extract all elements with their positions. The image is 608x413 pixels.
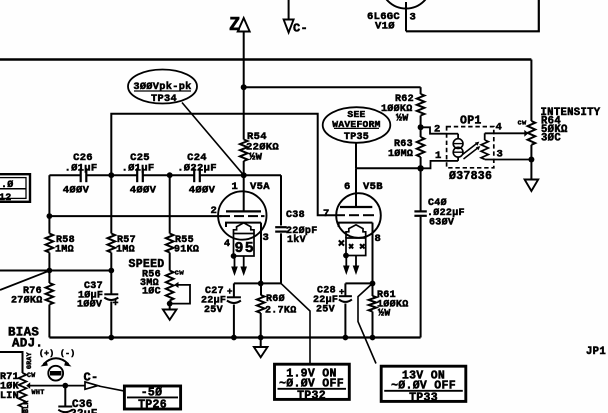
label R64 30C xyxy=(541,132,561,144)
wire R62 top xyxy=(420,87,422,94)
resistor R58 xyxy=(46,234,54,253)
wire R57 top xyxy=(110,175,112,233)
label R62 xyxy=(381,94,414,125)
label TP34 xyxy=(151,93,177,105)
light arrows OP1 xyxy=(463,142,481,159)
svg-text:CW: CW xyxy=(27,372,35,379)
label R56 cw xyxy=(175,270,185,278)
svg-text:4: 4 xyxy=(496,122,503,134)
label R63 xyxy=(388,139,413,160)
label V10 xyxy=(375,21,395,33)
svg-text:25V: 25V xyxy=(316,305,335,316)
wire C38 bottom xyxy=(261,233,281,283)
resistor R63 xyxy=(417,137,425,157)
label C37 plus xyxy=(113,299,119,310)
svg-text:.Ø1µF: .Ø1µF xyxy=(64,162,97,174)
adjust arc xyxy=(41,358,72,366)
label pin 3 V5A xyxy=(263,232,270,244)
svg-text:½W: ½W xyxy=(378,308,391,320)
svg-text:.Ø1µF: .Ø1µF xyxy=(121,162,154,174)
tube V5B cathode xyxy=(339,223,373,227)
node y270 dots xyxy=(47,268,115,274)
photoresistor OP1 xyxy=(481,133,488,159)
label C38 xyxy=(286,210,318,246)
svg-text:½W: ½W xyxy=(249,152,263,164)
label TP26 xyxy=(138,399,167,412)
svg-text:25V: 25V xyxy=(204,305,223,316)
screwdriver adjust symbol xyxy=(48,366,63,381)
node Z bus / wire y87 xyxy=(241,84,421,90)
wire diagonal lower-left xyxy=(0,271,49,290)
label pin 1 OP1 xyxy=(435,150,442,162)
ground below R56 xyxy=(163,310,177,320)
resistor R62 xyxy=(417,94,425,116)
capacitor C36 xyxy=(58,386,72,413)
wire C40 to bus xyxy=(420,217,422,338)
svg-text:2: 2 xyxy=(211,205,218,217)
divider TP33 xyxy=(384,390,463,392)
label JP1 xyxy=(586,346,606,358)
wire R55-R56 xyxy=(169,253,171,271)
svg-text:4: 4 xyxy=(224,239,230,250)
wire C- to TP26 xyxy=(99,386,124,391)
arrow below R64 xyxy=(525,180,539,192)
wire V5B cathode pin8 xyxy=(372,223,374,296)
svg-text:4ØØV: 4ØØV xyxy=(63,184,90,196)
svg-text:3: 3 xyxy=(497,149,504,161)
node plate row dot xyxy=(241,172,247,178)
label R60 xyxy=(265,293,297,317)
tube V10 envelope arc xyxy=(381,0,432,9)
svg-text:.Ø22µF: .Ø22µF xyxy=(177,162,217,174)
wire R62-R63 xyxy=(418,116,424,138)
pin x-marks V5B xyxy=(339,240,365,248)
svg-text:5: 5 xyxy=(245,240,254,257)
wire V5A plate lead xyxy=(243,175,245,211)
label R71 xyxy=(0,372,19,402)
label SEE xyxy=(347,109,365,120)
tube V5A heater xyxy=(234,223,255,256)
svg-text:1ØMΩ: 1ØMΩ xyxy=(388,148,413,160)
tube V5A envelope xyxy=(218,191,266,239)
label TP33 line2 xyxy=(391,380,456,393)
wire V10 cathode lead xyxy=(405,2,407,31)
label R54 xyxy=(246,131,279,164)
label pin 4 V5A xyxy=(224,239,230,250)
label TP32 xyxy=(297,389,326,402)
testpoint TP33 box xyxy=(381,366,466,401)
svg-text:12: 12 xyxy=(0,193,12,204)
svg-text:TP34: TP34 xyxy=(151,93,177,105)
resistor R55 xyxy=(166,234,174,253)
wire R57-C37 xyxy=(110,253,112,295)
svg-text:(-): (-) xyxy=(60,350,75,359)
label R61 xyxy=(377,290,409,320)
label TP35 xyxy=(344,132,369,143)
lamp OP1 xyxy=(447,134,463,161)
svg-text:cw: cw xyxy=(175,270,185,278)
svg-text:1MΩ: 1MΩ xyxy=(55,245,74,256)
node heater dot V5A xyxy=(231,253,237,259)
label R64 value xyxy=(541,124,568,136)
svg-text:R6Ø: R6Ø xyxy=(266,293,285,305)
svg-text:4ØØV: 4ØØV xyxy=(130,184,157,196)
wire C27 to bus xyxy=(231,305,237,341)
wire R71 bottom xyxy=(22,407,24,413)
wire R63-C40 xyxy=(420,157,422,211)
wire R58-R76 xyxy=(48,253,50,284)
label pin 9 V5A xyxy=(235,240,244,257)
label plus minus xyxy=(39,350,75,359)
label V5A xyxy=(250,181,270,193)
wire R58 top xyxy=(48,175,50,233)
svg-text:C38: C38 xyxy=(286,210,305,221)
capacitor C38 xyxy=(275,227,287,231)
svg-text:63ØV: 63ØV xyxy=(429,217,454,229)
wire V5A cathode pin3 xyxy=(260,223,262,295)
svg-text:3ØC: 3ØC xyxy=(541,132,561,144)
wire R76 to bus xyxy=(48,305,50,338)
node C28 dot xyxy=(370,281,376,287)
wire TP32 pointer xyxy=(281,283,310,363)
wire top horizontal bus xyxy=(0,58,531,60)
svg-text:cw: cw xyxy=(518,120,528,128)
svg-text:TP35: TP35 xyxy=(344,132,369,143)
label OP1 part number xyxy=(449,170,492,183)
label SPEED xyxy=(129,258,165,271)
label R71 cw xyxy=(27,372,35,379)
testpoint TP34 ellipse xyxy=(128,70,197,104)
resistor R57 xyxy=(108,234,116,253)
label C37 xyxy=(77,281,103,311)
label C- top xyxy=(293,22,308,36)
tube V5B heater xyxy=(346,225,366,256)
svg-text:1ØØV: 1ØØV xyxy=(77,299,102,311)
label TP33 line1 xyxy=(402,369,445,382)
tube V5A plate xyxy=(226,210,261,212)
arrow C- top xyxy=(284,0,294,33)
wire TP33 pointer xyxy=(358,283,376,363)
wire OP1 pin4 xyxy=(485,130,529,137)
potentiometer R56 xyxy=(166,271,174,301)
tube V5A cathode xyxy=(226,223,261,227)
label V5B xyxy=(363,181,383,193)
svg-text:+: + xyxy=(227,287,233,297)
capacitor C25 xyxy=(137,168,143,182)
svg-text:TP32: TP32 xyxy=(297,389,326,402)
wire heater arrows V5A xyxy=(231,256,247,276)
svg-text:V5B: V5B xyxy=(363,181,383,193)
label R58 xyxy=(55,235,75,256)
label R57 xyxy=(116,235,136,256)
label C- bottom xyxy=(84,371,99,385)
wire R55 top xyxy=(169,175,171,233)
wire TP35 to plate node xyxy=(355,143,357,169)
wire C27 link xyxy=(234,283,261,297)
capacitor C26 xyxy=(81,168,87,182)
svg-text:OP1: OP1 xyxy=(460,114,482,127)
node R63 bottom dot xyxy=(417,165,423,171)
testpoint TP32 box xyxy=(275,364,350,399)
label BLK xyxy=(23,400,30,413)
optocoupler OP1 box xyxy=(447,127,494,168)
wire OP1 pin2 xyxy=(421,127,447,133)
svg-text:2.7KΩ: 2.7KΩ xyxy=(265,306,297,317)
wire C37 to bus xyxy=(108,302,114,341)
wire right drop to R64 xyxy=(530,60,532,122)
wire OP1 pin3 xyxy=(485,157,535,163)
label 6L6GC xyxy=(367,11,400,23)
ground below bus xyxy=(254,338,268,358)
svg-text:Ø37836: Ø37836 xyxy=(449,170,492,183)
label pin 3 OP1 xyxy=(497,149,504,161)
wire R71 top xyxy=(0,352,23,373)
label C28 plus xyxy=(339,288,345,298)
wire heater arrows V5B xyxy=(343,256,359,276)
divider TP26 xyxy=(127,396,178,398)
tube V5A grid dashes xyxy=(220,215,265,217)
node cap row dots xyxy=(108,172,172,178)
svg-text:2: 2 xyxy=(434,124,441,136)
svg-text:BLK: BLK xyxy=(23,400,30,413)
label WHT xyxy=(32,389,45,397)
node Z / signal Z arrow xyxy=(238,18,250,140)
svg-text:V5A: V5A xyxy=(250,181,270,193)
svg-text:1: 1 xyxy=(435,150,442,162)
svg-text:22µF: 22µF xyxy=(70,409,98,413)
wire V10 box xyxy=(406,0,539,31)
label C27 xyxy=(201,286,226,316)
svg-text:3: 3 xyxy=(410,12,417,24)
label R56 xyxy=(140,270,161,298)
wire R56 wiper xyxy=(0,0,190,307)
svg-text:27ØKΩ: 27ØKΩ xyxy=(11,295,43,307)
wire OP1 pin1 xyxy=(421,161,447,168)
svg-text:+: + xyxy=(339,288,345,298)
label pin 6 V5B xyxy=(344,181,351,193)
testpoint TP26 box xyxy=(124,386,180,409)
arrow C- bottom xyxy=(85,382,98,389)
label pin 2 V5A xyxy=(211,205,218,217)
svg-text:TP33: TP33 xyxy=(409,391,438,404)
label BIAS ADJ xyxy=(8,326,43,351)
label 300Vpk-pk xyxy=(133,81,191,93)
resistor R61 xyxy=(369,296,377,312)
label C36 xyxy=(70,399,98,413)
svg-text:GRAY: GRAY xyxy=(26,352,33,369)
svg-text:TP26: TP26 xyxy=(138,399,167,412)
potentiometer R64 xyxy=(528,121,536,145)
svg-text:Z: Z xyxy=(229,14,241,36)
svg-text:4ØØV: 4ØØV xyxy=(189,184,216,196)
wire R61 to bus xyxy=(370,312,376,341)
label TP32 line2 xyxy=(279,378,344,391)
wire upper link xyxy=(111,114,336,215)
label pin 1 V5A xyxy=(232,181,239,193)
label C25 xyxy=(121,152,156,196)
label GRAY xyxy=(26,352,33,369)
svg-text:LIN: LIN xyxy=(0,391,19,402)
wire C28 branch xyxy=(345,283,372,296)
potentiometer R71 xyxy=(19,373,27,407)
svg-text:(+): (+) xyxy=(39,350,54,359)
svg-text:JP1: JP1 xyxy=(586,346,606,358)
svg-text:+: + xyxy=(113,299,119,310)
wire R60 to bus xyxy=(258,313,264,340)
label INTENSITY xyxy=(541,107,601,119)
wire R71 wiper xyxy=(26,382,85,389)
label C27 plus xyxy=(227,287,233,297)
capacitor C28 xyxy=(339,296,352,302)
capacitor C24 xyxy=(194,168,200,182)
svg-text:.Ø: .Ø xyxy=(1,179,14,191)
resistor R76 xyxy=(46,283,54,305)
label pin 8 V5B xyxy=(375,233,382,245)
label C28 xyxy=(313,286,338,316)
svg-text:WHT: WHT xyxy=(32,389,45,397)
label Z xyxy=(229,14,241,36)
wire cap row xyxy=(49,174,281,176)
svg-text:V1Ø: V1Ø xyxy=(375,21,395,33)
svg-text:½W: ½W xyxy=(396,113,409,125)
label WAVEFORM xyxy=(332,119,380,130)
label pin 4 OP1 xyxy=(496,122,503,134)
label TP26 -50 xyxy=(141,387,163,400)
label C26 xyxy=(63,152,98,196)
wire R54 to plate node xyxy=(243,161,245,175)
wire bottom bus xyxy=(49,336,420,338)
label OP1 xyxy=(460,114,482,127)
label .0 / 12 xyxy=(0,179,14,204)
svg-text:C-: C- xyxy=(84,371,99,385)
wire R64 bottom xyxy=(530,145,532,180)
svg-text:8: 8 xyxy=(375,233,382,245)
tube V5B envelope xyxy=(336,193,381,238)
label pin 5 V5A xyxy=(245,240,254,257)
tube V5B plate xyxy=(340,206,372,208)
node heater dot V5B xyxy=(343,253,349,259)
svg-text:1kV: 1kV xyxy=(287,234,306,246)
wire R56 to ground xyxy=(169,301,171,310)
svg-text:6: 6 xyxy=(344,181,351,193)
resistor R54 xyxy=(240,140,248,162)
label C40 xyxy=(427,197,465,229)
svg-text:7: 7 xyxy=(323,208,330,220)
label pin 7 V5B xyxy=(323,208,330,220)
label pin 3 V10 xyxy=(410,12,417,24)
wire V5A grid line xyxy=(47,213,222,219)
testpoint box left (cut) xyxy=(0,174,30,202)
testpoint TP35 ellipse xyxy=(323,107,391,143)
tube V5B grid dashes xyxy=(336,214,374,216)
capacitor C40 xyxy=(414,211,426,215)
divider TP32 xyxy=(278,388,347,390)
label pin 2 OP1 xyxy=(434,124,441,136)
label R64 cw xyxy=(518,120,528,128)
label R55 xyxy=(174,235,199,256)
label TP33 xyxy=(409,391,438,404)
wire C28 to bus xyxy=(343,304,349,341)
wire V5B plate link xyxy=(356,168,421,207)
svg-text:1ØC: 1ØC xyxy=(142,286,161,298)
node cathode V5A dot xyxy=(258,281,264,287)
capacitor C37 xyxy=(104,294,118,300)
label R76 xyxy=(11,286,43,307)
label TP32 line1 xyxy=(286,367,336,380)
svg-text:ADJ.: ADJ. xyxy=(12,337,43,351)
svg-text:3: 3 xyxy=(263,232,270,244)
label C24 xyxy=(177,152,217,196)
svg-text:91KΩ: 91KΩ xyxy=(174,245,199,256)
label R64 xyxy=(541,115,561,127)
resistor R60 xyxy=(257,295,265,313)
wire y270 horizontal xyxy=(0,270,111,272)
capacitor C27 xyxy=(227,297,241,303)
svg-text:C-: C- xyxy=(293,22,308,36)
svg-text:1MΩ: 1MΩ xyxy=(116,245,135,256)
svg-text:1: 1 xyxy=(232,181,239,193)
wire TP34 pointer xyxy=(182,103,244,176)
wire C38 top xyxy=(280,175,282,225)
